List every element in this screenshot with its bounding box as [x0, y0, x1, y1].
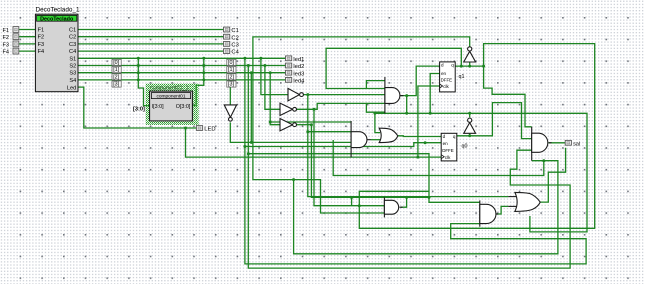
svg-text:S2: S2 [69, 64, 76, 70]
svg-text:q0: q0 [462, 144, 468, 150]
svg-text:F1: F1 [38, 28, 45, 34]
svg-text:S4: S4 [69, 78, 76, 84]
and gate AND5 [480, 200, 498, 226]
input port F2 [3, 34, 19, 41]
svg-text:F1: F1 [3, 28, 10, 34]
wire S1 row to led1 [78, 57, 286, 59]
wire C3 block to connector [78, 43, 224, 45]
svg-text:led3: led3 [293, 71, 304, 77]
svg-text:clk: clk [443, 84, 449, 89]
bus tap label [1] left [112, 67, 121, 74]
wire row1 tap to inverter A input [261, 58, 288, 94]
bus tap label [0] left [112, 59, 121, 66]
wire inverter B branch down to AND4 input [314, 109, 384, 205]
wire inverter U1 input stub [469, 62, 471, 66]
output connector C1 [224, 27, 239, 34]
svg-text:led4: led4 [293, 79, 305, 85]
svg-text:C4: C4 [69, 49, 76, 55]
svg-text:[3]: [3] [228, 82, 234, 88]
wire AND1 jog input [366, 81, 385, 89]
svg-text:Led: Led [67, 85, 76, 91]
svg-text:F2: F2 [38, 35, 45, 41]
bus tap label [0] right [227, 59, 236, 66]
wire C1 block to connector [78, 29, 224, 31]
svg-text:F2: F2 [3, 35, 10, 41]
wire inverter C branch down to AND5 input [311, 125, 479, 203]
wire row2 tap down to clock rail [248, 66, 570, 269]
svg-text:en: en [443, 141, 449, 146]
wire trunk113 right to line A [470, 113, 587, 232]
svg-text:clk: clk [445, 155, 451, 160]
output connector led4 [286, 78, 306, 85]
block component01 [150, 91, 193, 121]
bus tap label [2] right [227, 74, 236, 81]
wire row2 tap to inverter B input [265, 66, 280, 110]
bus tap label [1] right [227, 67, 236, 74]
wire row1 tap down to trunk T2 [245, 58, 586, 264]
svg-text:F3: F3 [38, 42, 45, 48]
svg-text:S1: S1 [69, 56, 76, 62]
svg-text:led2: led2 [293, 64, 304, 70]
wire AND2 top input [270, 121, 351, 123]
wire row3 tap to inverter C input [270, 73, 280, 125]
svg-text:d: d [441, 62, 444, 67]
wire AND4 output to AND3 bottom input [401, 197, 407, 207]
wire inverter U2 input stub [469, 133, 471, 136]
input port F3 [3, 41, 19, 48]
output connector sal [565, 140, 580, 147]
wire inverter A output to AND1 [303, 94, 385, 96]
svg-text:en: en [441, 71, 447, 76]
input port F4 [3, 48, 19, 55]
svg-text:DFFE: DFFE [442, 148, 454, 153]
wire trunk113 tap to DFF1 en [430, 74, 439, 114]
wire q1 feedback loop H3 to AND1 [326, 48, 461, 88]
wire AND1 output to DFF1 d [400, 66, 439, 96]
output connector C2 [224, 34, 239, 41]
wire LED branch down to clock rail [186, 128, 442, 157]
bus tap label [3] right [227, 81, 236, 88]
wire T1 branch loop [294, 161, 558, 254]
flip-flop DFF2 [441, 133, 457, 161]
wire row4 tap to inverter D input [229, 80, 231, 105]
svg-text:C3: C3 [231, 43, 238, 49]
wire q1 staircase to AND3 top input [484, 66, 532, 127]
wire AND1 out branch to trunk [406, 96, 408, 114]
wire inverter U2 output trunk [375, 113, 470, 117]
svg-text:component01: component01 [156, 93, 185, 99]
svg-text:F4: F4 [3, 50, 10, 56]
bus tap label [3] left [112, 81, 121, 88]
svg-text:DecoTeclado: DecoTeclado [40, 16, 74, 22]
input port F1 [3, 27, 19, 34]
output connector C4 [224, 49, 240, 56]
svg-text:I[3:0]: I[3:0] [152, 104, 164, 110]
svg-text:C1: C1 [231, 28, 238, 34]
inverter B (not gate right) [280, 103, 297, 115]
wire C4 block to connector [78, 50, 224, 52]
wire inverter B output up to AND1 input [296, 103, 385, 112]
wire Led pin to LED connector [78, 87, 196, 128]
component01 selection halo [146, 84, 199, 125]
svg-text:DecoTeclado_1: DecoTeclado_1 [36, 7, 80, 14]
wire AND3 output to sal [549, 142, 566, 144]
wire DFF2 q to inverter U2 [457, 103, 532, 139]
wire AND2 output to OR1 [371, 139, 380, 141]
wire F4 input to block [19, 50, 36, 52]
bus tap label [2] left [112, 74, 121, 81]
wire inverter A branch down to OR2 input [308, 95, 509, 197]
inverter D (not gate down) [224, 105, 236, 121]
svg-text:F3: F3 [3, 42, 10, 48]
svg-text:C3: C3 [69, 42, 76, 48]
svg-text:C1: C1 [69, 28, 76, 34]
and gate AND1 [385, 77, 404, 113]
wire inverter A branch to AND2 input [308, 131, 351, 133]
wire inverter C output [296, 124, 311, 126]
inverter A (not gate right) [288, 88, 303, 100]
wire row3 second tap down to rail A [250, 73, 252, 143]
output connector led2 [286, 63, 305, 70]
output connector C3 [224, 42, 239, 49]
svg-text:sal: sal [573, 141, 580, 147]
wire OR1 output to DFF2 d [398, 135, 441, 138]
output connector led1 [286, 56, 305, 63]
svg-text:C2: C2 [69, 35, 76, 41]
or gate OR2 [508, 192, 540, 211]
wire trunk113 tap to OR1 top input [375, 113, 380, 132]
flip-flop DFF1 [440, 62, 456, 92]
svg-text:[2]: [2] [113, 74, 119, 80]
wire S2 row to led2 [78, 65, 286, 67]
svg-text:[1]: [1] [113, 67, 119, 73]
inverter C (not gate right) [280, 119, 297, 131]
wire OR2 output loop [540, 148, 565, 202]
svg-text:S3: S3 [69, 71, 76, 77]
svg-text:[0]: [0] [113, 60, 119, 66]
output connector led3 [286, 70, 305, 77]
wire inverter D output rail [230, 122, 351, 142]
and gate AND2 [351, 121, 371, 157]
svg-text:q: q [451, 62, 454, 67]
svg-text:[1]: [1] [228, 67, 234, 73]
svg-text:[3]: [3] [113, 82, 119, 88]
wire component01 output to tap column [192, 58, 203, 105]
svg-text:d: d [443, 134, 446, 139]
wire bus gather to component01 input [138, 58, 149, 105]
svg-text:DFFE: DFFE [441, 78, 453, 83]
svg-text:[2]: [2] [228, 74, 234, 80]
inverter U2 (not gate up at q0) [464, 118, 476, 133]
wire AND5 output to OR2 input [496, 206, 508, 214]
svg-text:F4: F4 [38, 49, 45, 55]
wire F1 input to block [19, 29, 36, 31]
svg-text:q: q [453, 134, 456, 139]
wire rail B to DFF2 en [245, 143, 441, 147]
wire rail C [248, 154, 429, 198]
svg-text:O[3:0]: O[3:0] [176, 104, 191, 110]
and gate AND4 [384, 197, 402, 217]
svg-text:C4: C4 [231, 50, 239, 56]
wire C2 block to connector [78, 36, 224, 38]
and gate AND3 (sal) [532, 127, 552, 161]
inverter U1 (not gate up at q1) [464, 47, 476, 62]
output connector LED [196, 126, 215, 133]
wire clk rail up to DFF1 clk [418, 86, 440, 157]
svg-text:q1: q1 [459, 74, 465, 80]
wire F3 input to block [19, 43, 36, 45]
svg-text:[3:0]: [3:0] [133, 107, 145, 113]
or gate OR1 [379, 128, 398, 142]
svg-text:[0]: [0] [228, 60, 234, 66]
wire DFF1 q to inverter and H2 [359, 44, 594, 229]
svg-text:led1: led1 [293, 57, 304, 63]
svg-text:C2: C2 [231, 35, 238, 41]
wire inverter U1 output H1 trunk [253, 37, 470, 213]
wire S3 row to led3 [78, 72, 286, 74]
wire trunk175 left extension [333, 140, 544, 176]
wire inverter B input stub AND1 [366, 102, 385, 104]
wire F2 input to block [19, 36, 36, 38]
svg-text:LED: LED [204, 127, 215, 133]
block DecoTeclado_1 [35, 7, 80, 92]
wire jog at 351.6 [351, 197, 353, 205]
wire S4 row to led4 [78, 79, 286, 81]
